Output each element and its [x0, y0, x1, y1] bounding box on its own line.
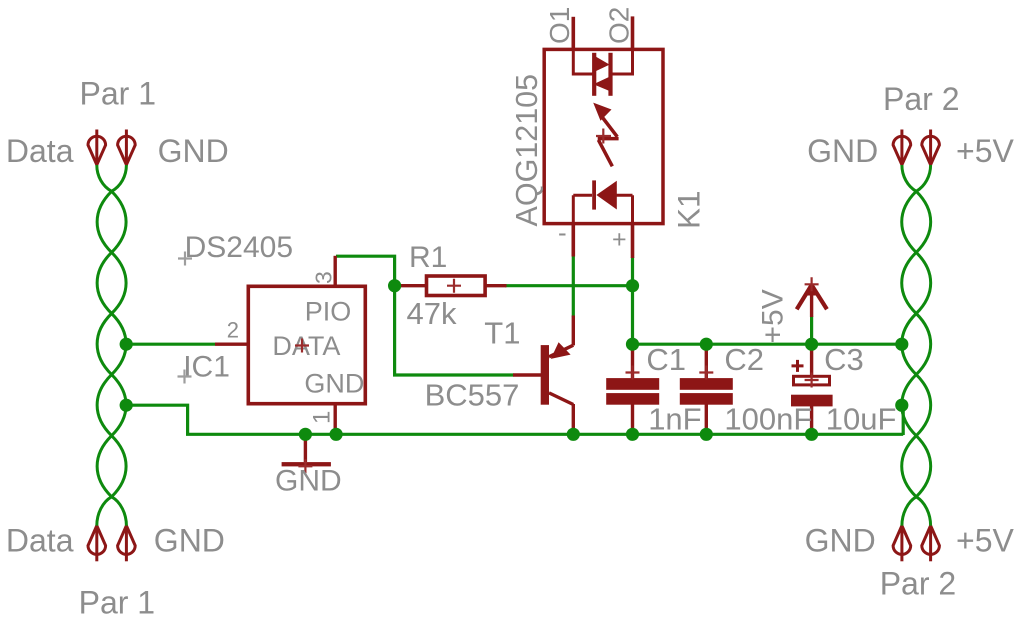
junction T1 collector node: [567, 428, 580, 441]
IC1 origin cross: [295, 339, 309, 353]
svg-text:47k: 47k: [407, 296, 457, 331]
T1 collector pin: [572, 404, 575, 434]
wire node A to T1 base: [395, 286, 514, 375]
C3 origin cross: [805, 373, 819, 388]
junction top rail C2: [700, 338, 713, 351]
svg-text:O1: O1: [544, 7, 575, 44]
junction C1 bottom: [626, 428, 639, 441]
R1 right pin: [486, 284, 507, 287]
svg-text:100nF: 100nF: [724, 401, 812, 436]
junction C3 bottom: [805, 428, 818, 441]
capacitor C3 top plate (hollow): [794, 376, 830, 385]
K1 arrow origin cross: [596, 129, 611, 144]
K1 pin O2 stub: [631, 16, 635, 50]
C1 origin cross: [626, 366, 640, 380]
svg-text:T1: T1: [484, 315, 520, 350]
capacitor C2 bottom plate: [680, 393, 733, 405]
svg-text:2: 2: [227, 318, 239, 343]
junction GND symbol node: [299, 428, 312, 441]
wire K1 minus to T1 emitter: [572, 256, 575, 317]
relay K1 box: [544, 49, 663, 223]
svg-text:PIO: PIO: [305, 297, 352, 327]
svg-text:C2: C2: [724, 342, 764, 377]
C2 bottom pin: [705, 404, 708, 434]
K1 LED arrow head: [593, 103, 611, 121]
K1 diode cathode bar: [592, 180, 596, 209]
C3 top pin: [810, 344, 813, 375]
IC1 pin 1 stub: [334, 404, 337, 434]
K1 diode inner wires: [573, 195, 632, 225]
svg-text:IC1: IC1: [183, 351, 230, 384]
svg-text:Par 1: Par 1: [79, 584, 155, 620]
+5V arrow stem red: [810, 284, 813, 317]
svg-text:GND: GND: [807, 133, 878, 169]
svg-text:BC557: BC557: [425, 377, 520, 412]
junction C2 bottom: [700, 428, 713, 441]
wire +5V top rail: [633, 343, 902, 346]
wire Data to IC1 pin2: [126, 343, 215, 346]
GND symbol stem: [304, 434, 307, 462]
junction Data braid: [120, 338, 133, 351]
T1 emitter pin: [572, 316, 575, 346]
junction GND right braid: [895, 399, 908, 412]
GND origin cross: [298, 459, 312, 473]
wire R1 to K1 plus: [505, 284, 633, 287]
capacitor C3 bottom plate: [791, 395, 833, 407]
pin GND Par1 bottom: [118, 526, 136, 562]
svg-text:GND: GND: [154, 523, 225, 559]
junction top rail C1: [626, 338, 639, 351]
C2 top pin: [705, 344, 708, 379]
IC U1 box (DS2405): [248, 286, 365, 403]
twisted pair Par2 strand B: [902, 165, 931, 526]
C2 origin cross: [699, 366, 713, 380]
K1 inner wire O1: [573, 49, 592, 74]
svg-text:R1: R1: [409, 241, 447, 274]
K1 triac triangle top: [593, 55, 610, 73]
svg-text:GND: GND: [275, 465, 342, 498]
T1 base pin: [513, 373, 542, 376]
junction IC1 pin1 node: [330, 428, 343, 441]
T1 collector diagonal: [549, 393, 573, 405]
ground symbol GND: [282, 462, 331, 466]
svg-text:+: +: [612, 226, 627, 254]
svg-text:GND: GND: [304, 369, 364, 399]
svg-text:1: 1: [309, 411, 336, 424]
svg-text:Data: Data: [6, 133, 74, 169]
junction top rail braid: [895, 338, 908, 351]
twisted pair Par2 strand A: [902, 165, 931, 526]
pin GND Par2 bottom: [893, 526, 911, 562]
T1 emitter arrow: [551, 342, 571, 359]
pin +5V Par2 bottom: [922, 526, 940, 562]
svg-text:DS2405: DS2405: [185, 231, 293, 264]
wire bottom GND rail: [186, 433, 903, 436]
wire GND left to bottom rail: [126, 405, 187, 435]
junction GND left braid: [120, 399, 133, 412]
svg-text:-: -: [558, 217, 567, 247]
twisted pair Par1 strand A: [97, 165, 126, 526]
svg-text:Data: Data: [6, 523, 74, 559]
svg-text:10uF: 10uF: [826, 401, 897, 436]
IC1 name origin cross: [178, 370, 192, 384]
twisted pair Par1 strand B: [97, 165, 126, 526]
svg-text:3: 3: [311, 271, 337, 284]
wire IC1 pin3 to node A: [336, 256, 395, 286]
K1 pin O1 stub: [571, 17, 575, 50]
wire bottom rail to Par2 GND: [902, 405, 903, 435]
svg-text:Par 2: Par 2: [883, 81, 959, 117]
C1 top pin: [631, 344, 634, 379]
C1 bottom pin: [631, 404, 634, 434]
junction node A (pin3/R1): [388, 279, 401, 292]
pin GND Par2 top: [893, 130, 911, 165]
capacitor C1 bottom plate: [606, 393, 659, 405]
K1 pin plus stub: [631, 224, 635, 258]
junction K1 plus node: [626, 279, 639, 292]
K1 LED arrow shaft: [598, 118, 619, 167]
T1 emitter diagonal: [549, 345, 573, 357]
svg-text:AQG12105: AQG12105: [510, 74, 544, 227]
svg-text:+5V: +5V: [956, 133, 1014, 169]
K1 inner wire O2: [612, 49, 633, 74]
svg-text:+5V: +5V: [956, 523, 1014, 559]
pin Data Par1 bottom: [88, 526, 106, 562]
R1 left pin: [396, 284, 426, 287]
svg-text:+5V: +5V: [757, 289, 790, 343]
IC1 pin 2 stub: [215, 343, 248, 346]
svg-text:Par 2: Par 2: [880, 565, 956, 601]
+5V arrow origin cross: [805, 277, 819, 291]
pin GND Par1 top: [118, 130, 136, 165]
pin Data Par1 top: [88, 130, 106, 165]
DS2405 name origin cross: [178, 252, 192, 266]
svg-text:K1: K1: [670, 190, 706, 229]
resistor R1: [427, 276, 486, 296]
wire K1 plus down: [631, 258, 634, 345]
transistor T1 base bar: [541, 345, 549, 405]
+5V supply arrow: [797, 283, 827, 310]
svg-text:GND: GND: [158, 133, 229, 169]
K1 triac right bar: [608, 53, 612, 96]
C3 polarity plus: [792, 360, 804, 372]
junction top rail C3: [805, 338, 818, 351]
svg-text:Par 1: Par 1: [80, 76, 156, 112]
wire +5V arrow stem green: [810, 317, 813, 345]
K1 triac triangle bottom: [593, 76, 612, 92]
C3 bottom pin: [810, 406, 813, 435]
svg-text:1nF: 1nF: [648, 401, 701, 436]
capacitor C1 top plate: [606, 378, 659, 390]
K1 pin minus stub: [571, 224, 575, 257]
R1 origin cross: [447, 279, 461, 293]
pin +5V Par2 top: [922, 130, 940, 165]
K1 triac left bar: [592, 53, 596, 96]
svg-text:C1: C1: [646, 342, 686, 377]
IC1 pin 3 stub: [334, 256, 337, 286]
K1 diode triangle: [596, 181, 616, 210]
capacitor C2 top plate: [680, 378, 733, 390]
svg-text:O2: O2: [603, 7, 634, 44]
svg-text:GND: GND: [805, 523, 876, 559]
svg-text:C3: C3: [824, 342, 864, 377]
